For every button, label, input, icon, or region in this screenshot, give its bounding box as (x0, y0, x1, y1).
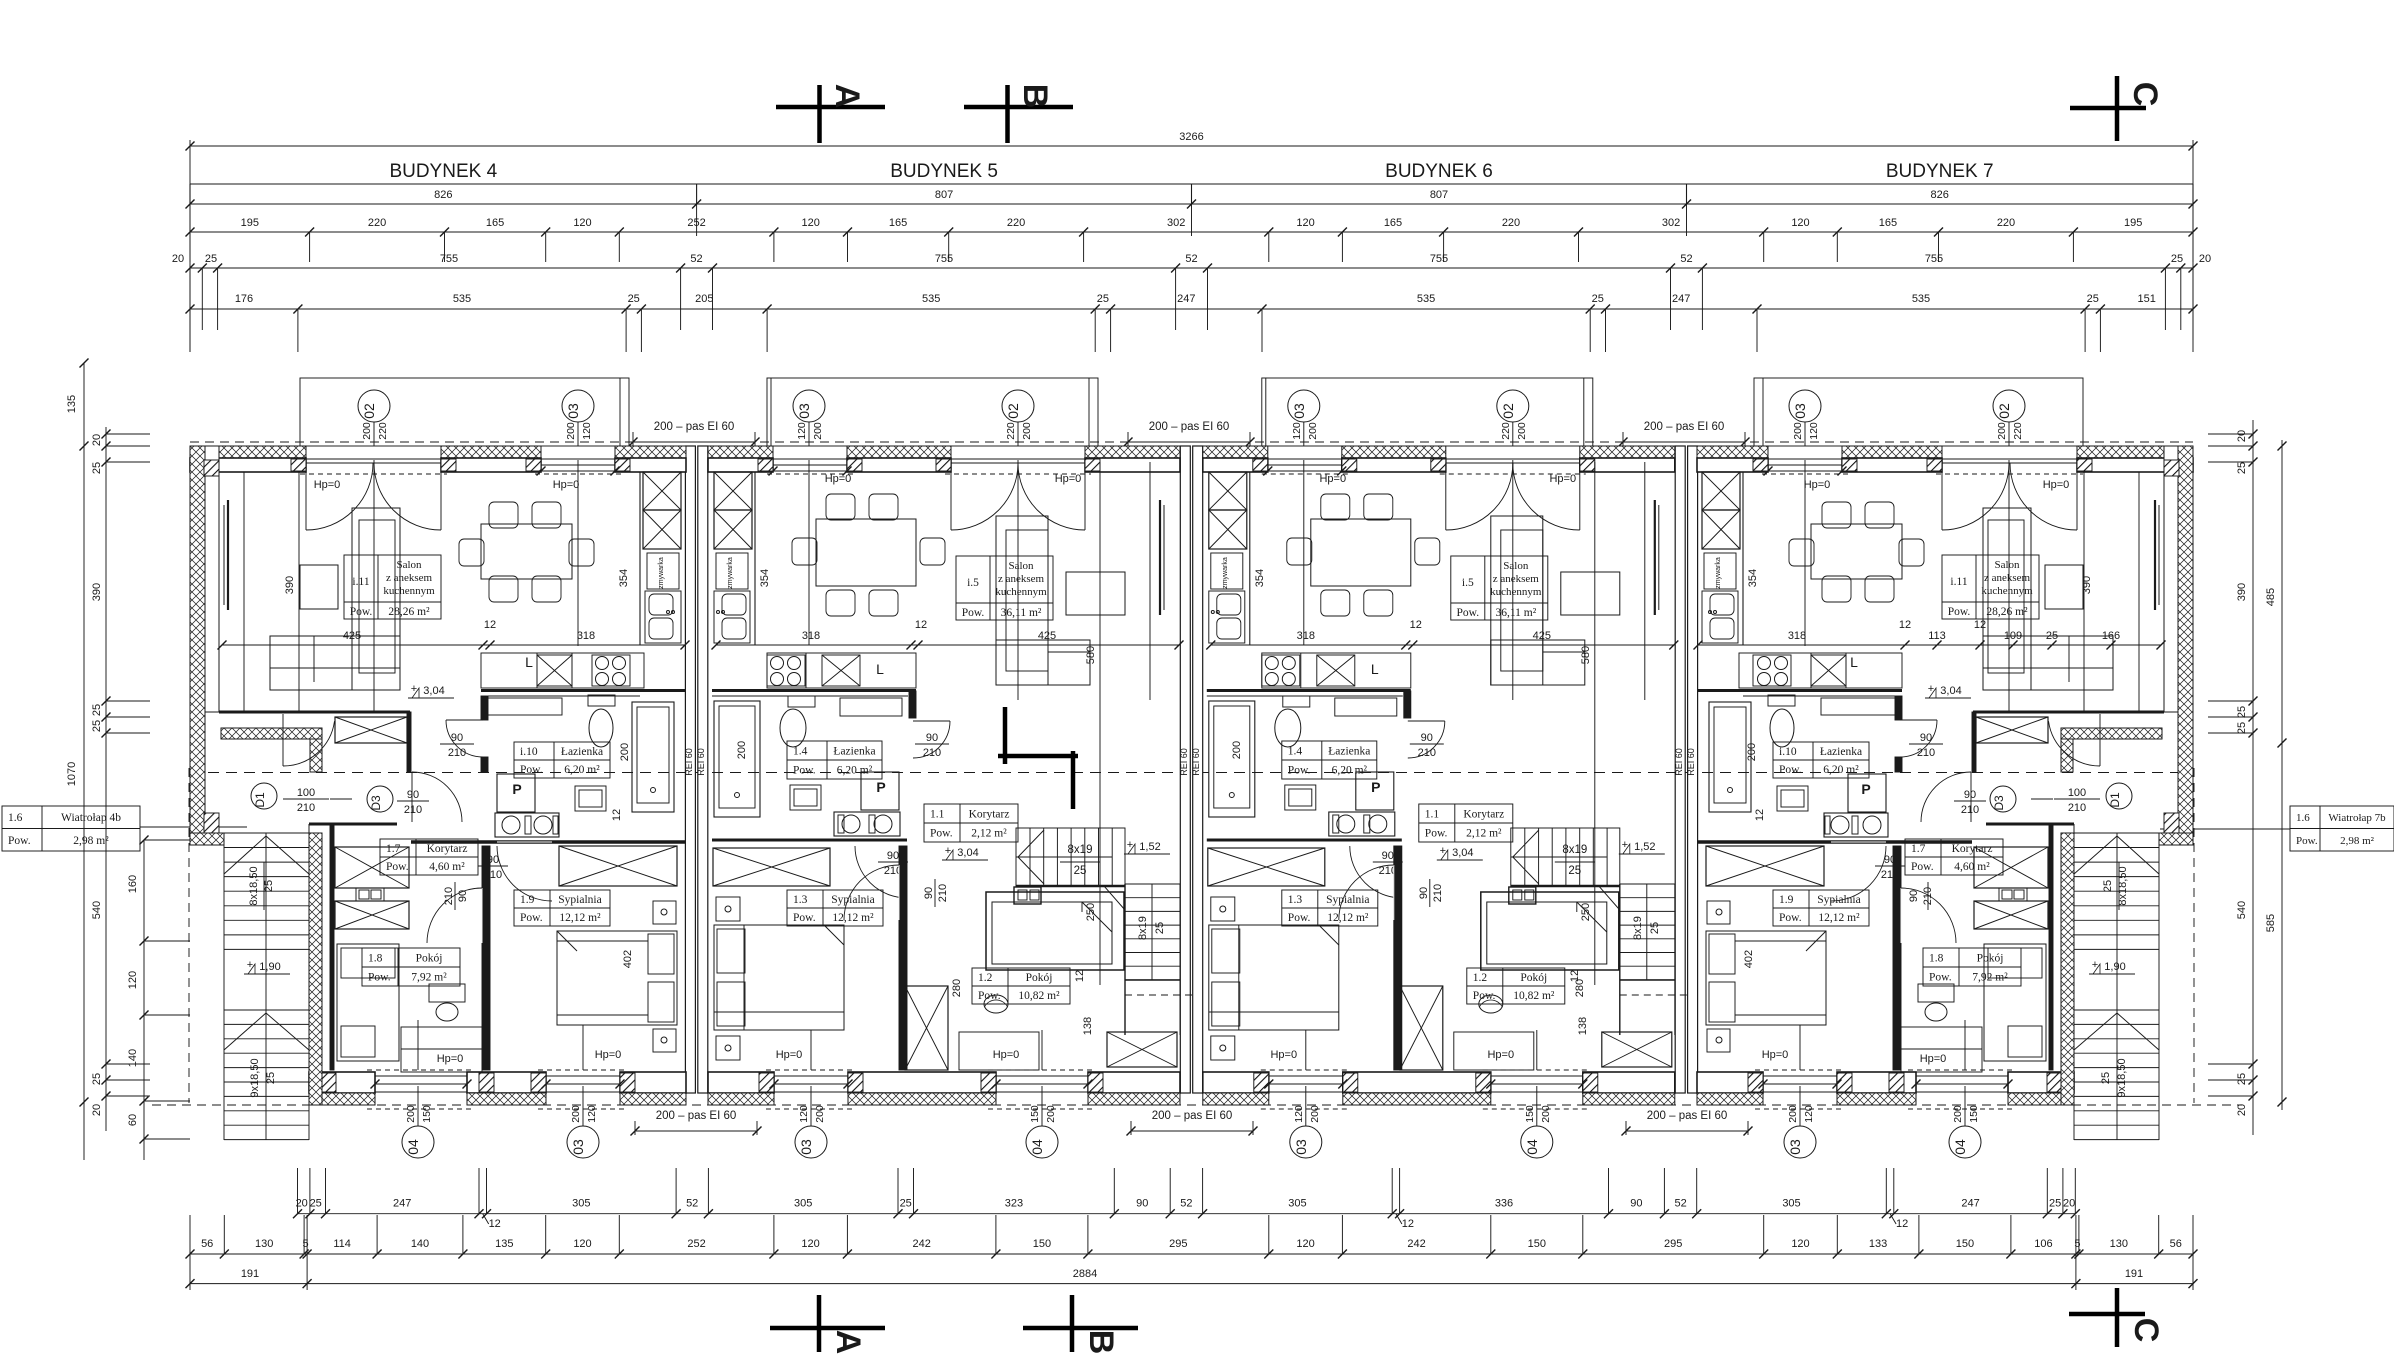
windows & doors in exterior walls (1942, 458, 2077, 460)
svg-text:1.6: 1.6 (8, 812, 23, 824)
svg-text:390: 390 (2081, 576, 2093, 594)
svg-text:REI 60: REI 60 (1674, 748, 1684, 776)
svg-text:1,52: 1,52 (1139, 841, 1160, 853)
svg-text:25: 25 (1154, 922, 1166, 934)
svg-text:25: 25 (2236, 462, 2248, 474)
svg-text:Hp=0: Hp=0 (1319, 473, 1346, 485)
left dimension column (66, 359, 190, 1161)
svg-text:25: 25 (628, 293, 640, 305)
svg-text:8x19: 8x19 (1632, 916, 1644, 940)
svg-text:03: 03 (796, 403, 812, 419)
svg-text:220: 220 (377, 422, 389, 440)
svg-text:90: 90 (457, 890, 469, 902)
svg-text:210: 210 (404, 804, 422, 816)
svg-text:140: 140 (411, 1238, 429, 1250)
corridor 1.7 (411, 840, 686, 844)
svg-text:305: 305 (1782, 1198, 1800, 1210)
svg-text:Pow.: Pow. (350, 606, 373, 618)
svg-text:220: 220 (1997, 217, 2015, 229)
svg-text:Hp=0: Hp=0 (1920, 1053, 1947, 1065)
svg-text:100: 100 (2068, 787, 2086, 799)
svg-text:D1: D1 (253, 792, 267, 808)
svg-text:Salon: Salon (396, 559, 422, 571)
exterior walls mid unit (708, 446, 773, 458)
sypialnia 1.9 (1773, 890, 1869, 926)
svg-text:200: 200 (361, 422, 373, 440)
svg-text:1,52: 1,52 (1634, 841, 1655, 853)
svg-text:318: 318 (1297, 630, 1315, 642)
svg-text:52: 52 (686, 1198, 698, 1210)
svg-text:20: 20 (2236, 430, 2248, 442)
svg-text:Pokój: Pokój (1026, 972, 1053, 984)
svg-text:280: 280 (951, 979, 963, 997)
svg-text:4,60 m²: 4,60 m² (1954, 861, 1990, 873)
svg-text:138: 138 (1082, 1017, 1094, 1035)
svg-text:205: 205 (695, 293, 713, 305)
svg-text:zmywarka: zmywarka (727, 557, 734, 589)
svg-text:130: 130 (2110, 1238, 2128, 1250)
svg-text:Hp=0: Hp=0 (314, 479, 341, 491)
svg-text:REI 60: REI 60 (1686, 748, 1696, 776)
svg-text:zmywarka: zmywarka (658, 557, 665, 589)
svg-text:302: 302 (1167, 217, 1185, 229)
svg-text:03: 03 (1291, 403, 1307, 419)
svg-text:z aneksem: z aneksem (1493, 573, 1540, 585)
svg-text:12: 12 (1074, 970, 1086, 982)
svg-text:25: 25 (2236, 706, 2248, 718)
svg-text:12: 12 (1402, 1218, 1414, 1230)
right dimension column (2208, 420, 2287, 1135)
svg-text:52: 52 (1674, 1198, 1686, 1210)
svg-text:D3: D3 (369, 795, 383, 811)
svg-text:52: 52 (690, 253, 702, 265)
windows & doors mid unit (773, 459, 847, 471)
svg-text:247: 247 (393, 1198, 411, 1210)
svg-text:3,04: 3,04 (1940, 685, 1961, 697)
svg-text:3266: 3266 (1179, 131, 1203, 143)
svg-text:585: 585 (2265, 914, 2277, 932)
section marker B top (1005, 85, 1010, 143)
svg-text:BUDYNEK 4: BUDYNEK 4 (389, 161, 497, 182)
svg-text:114: 114 (333, 1238, 351, 1250)
svg-text:Pow.: Pow. (1288, 912, 1311, 924)
svg-text:Sypialnia: Sypialnia (1326, 894, 1369, 906)
svg-text:200: 200 (1996, 422, 2008, 440)
svg-text:52: 52 (1180, 1198, 1192, 1210)
pokoj 1.8 (482, 846, 490, 1070)
svg-text:6,20 m²: 6,20 m² (837, 765, 873, 777)
svg-text:1070: 1070 (66, 762, 78, 786)
svg-text:90: 90 (923, 887, 935, 899)
svg-text:Pokój: Pokój (1977, 953, 2004, 965)
svg-text:318: 318 (1788, 630, 1806, 642)
svg-text:L: L (1371, 661, 1379, 677)
svg-text:zmywarka: zmywarka (1715, 557, 1722, 589)
svg-text:56: 56 (2170, 1238, 2182, 1250)
svg-text:6,20 m²: 6,20 m² (1332, 765, 1368, 777)
svg-text:133: 133 (1869, 1238, 1887, 1250)
svg-text:210: 210 (448, 747, 466, 759)
svg-text:826: 826 (434, 189, 452, 201)
svg-text:305: 305 (572, 1198, 590, 1210)
svg-text:540: 540 (91, 901, 103, 919)
svg-text:Wiatrołap 7b: Wiatrołap 7b (2328, 812, 2386, 824)
svg-text:Sypialnia: Sypialnia (558, 894, 601, 906)
svg-text:135: 135 (66, 395, 78, 413)
svg-text:318: 318 (802, 630, 820, 642)
svg-text:220: 220 (368, 217, 386, 229)
svg-text:03: 03 (1293, 1139, 1309, 1155)
svg-text:250: 250 (1085, 903, 1097, 921)
svg-text:166: 166 (2102, 630, 2120, 642)
svg-text:Pow.: Pow. (1911, 861, 1934, 873)
svg-text:6,20 m²: 6,20 m² (564, 764, 600, 776)
svg-text:Salon: Salon (1994, 559, 2020, 571)
corridor 1.1 mid (924, 804, 1018, 842)
kitchen end unit (639, 472, 641, 645)
svg-text:354: 354 (618, 569, 630, 587)
svg-text:Hp=0: Hp=0 (1762, 1049, 1789, 1061)
opening labels end unit (358, 390, 390, 422)
svg-text:160: 160 (127, 875, 139, 893)
svg-text:Pow.: Pow. (386, 861, 409, 873)
svg-text:L: L (525, 654, 533, 670)
wiatrolap 4b table (2, 806, 140, 851)
svg-text:12: 12 (1896, 1218, 1908, 1230)
svg-text:191: 191 (2125, 1268, 2143, 1280)
svg-text:90: 90 (1630, 1198, 1642, 1210)
svg-text:Korytarz: Korytarz (1463, 809, 1504, 821)
svg-text:BUDYNEK 5: BUDYNEK 5 (890, 161, 998, 182)
svg-text:Hp=0: Hp=0 (2043, 479, 2070, 491)
svg-text:L: L (1850, 654, 1858, 670)
corridor 1.1 mid (1419, 804, 1513, 842)
svg-text:z aneksem: z aneksem (1984, 572, 2031, 584)
hall / porch end unit (335, 717, 407, 743)
svg-text:106: 106 (2034, 1238, 2052, 1250)
svg-text:165: 165 (486, 217, 504, 229)
svg-text:305: 305 (794, 1198, 812, 1210)
svg-text:12: 12 (1754, 809, 1766, 821)
svg-text:8x19: 8x19 (1068, 844, 1093, 856)
svg-text:P: P (1371, 779, 1380, 795)
svg-text:1.4: 1.4 (793, 746, 808, 758)
svg-text:165: 165 (1384, 217, 1402, 229)
windows & doors mid unit (1268, 459, 1342, 471)
section marker B bottom (1070, 1295, 1075, 1352)
svg-text:90: 90 (887, 850, 899, 862)
svg-text:04: 04 (405, 1139, 421, 1155)
svg-text:03: 03 (565, 403, 581, 419)
svg-text:120: 120 (1791, 1238, 1809, 1250)
svg-text:200 – pas EI 60: 200 – pas EI 60 (1152, 1110, 1233, 1122)
svg-text:03: 03 (1792, 403, 1808, 419)
svg-text:210: 210 (1961, 804, 1979, 816)
svg-text:Hp=0: Hp=0 (1549, 473, 1576, 485)
svg-text:2884: 2884 (1073, 1268, 1097, 1280)
svg-text:25: 25 (2102, 880, 2114, 892)
svg-text:165: 165 (1879, 217, 1897, 229)
svg-text:z aneksem: z aneksem (998, 573, 1045, 585)
svg-text:25: 25 (2049, 1198, 2061, 1210)
svg-text:Hp=0: Hp=0 (1804, 479, 1831, 491)
svg-text:Pow.: Pow. (520, 912, 543, 924)
svg-text:755: 755 (1925, 253, 1943, 265)
svg-text:Pow.: Pow. (793, 765, 816, 777)
svg-text:Wiatrołap 4b: Wiatrołap 4b (61, 812, 121, 824)
svg-text:425: 425 (343, 630, 361, 642)
svg-text:Salon: Salon (1503, 560, 1529, 572)
svg-text:12: 12 (1410, 619, 1422, 631)
svg-text:C: C (2126, 82, 2164, 107)
svg-text:2,12 m²: 2,12 m² (971, 828, 1007, 840)
svg-text:25: 25 (91, 704, 103, 716)
svg-text:12,12 m²: 12,12 m² (1818, 912, 1860, 924)
stairs mid unit (1016, 828, 1125, 886)
svg-text:390: 390 (284, 576, 296, 594)
svg-text:200 – pas EI 60: 200 – pas EI 60 (656, 1110, 737, 1122)
svg-text:120: 120 (1296, 217, 1314, 229)
svg-text:20: 20 (2236, 1104, 2248, 1116)
svg-text:52: 52 (1185, 253, 1197, 265)
svg-text:Łazienka: Łazienka (561, 746, 603, 758)
svg-text:04: 04 (1524, 1139, 1540, 1155)
kitchen end unit (1742, 472, 1744, 645)
svg-text:120: 120 (1296, 1238, 1314, 1250)
svg-text:25: 25 (2087, 293, 2099, 305)
section B jog (1003, 707, 1008, 764)
svg-text:36,11 m²: 36,11 m² (1495, 607, 1536, 619)
svg-text:336: 336 (1495, 1198, 1513, 1210)
stairs tower end unit (309, 833, 322, 1105)
svg-text:120: 120 (1803, 1105, 1815, 1123)
svg-text:12: 12 (489, 1218, 501, 1230)
svg-text:Łazienka: Łazienka (833, 746, 875, 758)
svg-text:200 – pas EI 60: 200 – pas EI 60 (654, 421, 735, 433)
svg-text:1.3: 1.3 (1288, 894, 1303, 906)
svg-text:Hp=0: Hp=0 (437, 1053, 464, 1065)
svg-text:20: 20 (296, 1198, 308, 1210)
svg-text:BUDYNEK 7: BUDYNEK 7 (1886, 161, 1994, 182)
svg-text:1.8: 1.8 (368, 953, 383, 965)
svg-text:P: P (1861, 781, 1870, 797)
section marker A top (817, 85, 822, 143)
svg-text:12,12 m²: 12,12 m² (559, 912, 601, 924)
svg-text:1.1: 1.1 (1425, 809, 1440, 821)
svg-text:165: 165 (889, 217, 907, 229)
svg-text:REI 60: REI 60 (684, 748, 694, 776)
svg-text:25: 25 (1592, 293, 1604, 305)
svg-text:135: 135 (495, 1238, 513, 1250)
svg-text:100: 100 (297, 787, 315, 799)
svg-text:28,26 m²: 28,26 m² (1986, 606, 2028, 618)
svg-text:D3: D3 (1992, 795, 2006, 811)
svg-text:90: 90 (1920, 732, 1932, 744)
party wall B6/B7 (1675, 446, 1685, 1093)
svg-text:04: 04 (1952, 1139, 1968, 1155)
svg-text:1,90: 1,90 (2104, 961, 2125, 973)
dims mid unit (716, 644, 1180, 646)
svg-text:12: 12 (1974, 619, 1986, 631)
party wall B4/B5 (685, 446, 695, 1093)
svg-text:150: 150 (1968, 1105, 1980, 1123)
svg-text:Pow.: Pow. (2296, 835, 2318, 847)
svg-text:90: 90 (1421, 732, 1433, 744)
svg-text:130: 130 (255, 1238, 273, 1250)
salon mid unit (996, 516, 1048, 685)
svg-text:25: 25 (2236, 722, 2248, 734)
svg-text:113: 113 (1928, 630, 1946, 642)
svg-text:25: 25 (91, 462, 103, 474)
svg-text:1.9: 1.9 (1779, 894, 1794, 906)
svg-text:56: 56 (201, 1238, 213, 1250)
svg-text:Hp=0: Hp=0 (595, 1049, 622, 1061)
svg-text:12,12 m²: 12,12 m² (1327, 912, 1369, 924)
svg-text:191: 191 (241, 1268, 259, 1280)
svg-text:L: L (876, 661, 884, 677)
svg-text:242: 242 (913, 1238, 931, 1250)
stairs tower end unit (2061, 833, 2074, 1105)
svg-text:9x18,50: 9x18,50 (249, 1058, 261, 1097)
bottom dimension block (186, 1168, 2198, 1290)
svg-text:+: + (1928, 683, 1934, 695)
svg-text:Hp=0: Hp=0 (1487, 1049, 1514, 1061)
svg-text:151: 151 (2138, 293, 2156, 305)
svg-text:200 – pas EI 60: 200 – pas EI 60 (1149, 421, 1230, 433)
svg-text:390: 390 (91, 583, 103, 601)
svg-text:i.11: i.11 (1950, 576, 1967, 588)
svg-text:120: 120 (1291, 422, 1303, 440)
svg-text:Pow.: Pow. (793, 912, 816, 924)
svg-text:9x18,50: 9x18,50 (2116, 1058, 2128, 1097)
svg-text:1.6: 1.6 (2296, 812, 2310, 824)
svg-text:25: 25 (91, 1073, 103, 1085)
svg-text:i.10: i.10 (520, 746, 538, 758)
svg-text:755: 755 (440, 253, 458, 265)
svg-text:Pow.: Pow. (1948, 606, 1971, 618)
svg-text:200: 200 (1307, 422, 1319, 440)
exterior walls mid unit (1203, 446, 1268, 458)
svg-text:P: P (876, 779, 885, 795)
svg-text:12: 12 (611, 809, 623, 821)
svg-text:03: 03 (798, 1139, 814, 1155)
svg-text:535: 535 (453, 293, 471, 305)
svg-text:200: 200 (1952, 1105, 1964, 1123)
svg-text:1.8: 1.8 (1929, 953, 1944, 965)
exterior walls end unit (190, 446, 306, 458)
svg-text:210: 210 (923, 747, 941, 759)
opening labels mid unit (793, 390, 825, 422)
svg-text:36,11 m²: 36,11 m² (1001, 607, 1042, 619)
svg-text:Pow.: Pow. (1779, 764, 1802, 776)
svg-text:1.2: 1.2 (978, 972, 993, 984)
svg-text:25: 25 (1649, 922, 1661, 934)
svg-text:Hp=0: Hp=0 (553, 479, 580, 491)
svg-text:1,90: 1,90 (259, 961, 280, 973)
svg-text:kuchennym: kuchennym (995, 586, 1047, 598)
svg-text:140: 140 (127, 1049, 139, 1067)
svg-text:52: 52 (1680, 253, 1692, 265)
svg-text:150: 150 (1029, 1105, 1041, 1123)
svg-text:176: 176 (235, 293, 253, 305)
svg-text:150: 150 (1956, 1238, 1974, 1250)
svg-text:200: 200 (1787, 1105, 1799, 1123)
svg-text:90: 90 (451, 732, 463, 744)
svg-text:5: 5 (2074, 1238, 2080, 1250)
svg-text:Hp=0: Hp=0 (776, 1049, 803, 1061)
pokoj 1.8 (1893, 846, 1901, 1070)
svg-text:03: 03 (570, 1139, 586, 1155)
svg-text:354: 354 (1254, 569, 1266, 587)
svg-text:Pow.: Pow. (1457, 607, 1480, 619)
svg-text:Salon: Salon (1008, 560, 1034, 572)
svg-text:280: 280 (1574, 979, 1586, 997)
party wall B5/B6 (1180, 446, 1190, 1093)
svg-text:Pow.: Pow. (1929, 972, 1952, 984)
svg-text:150: 150 (1528, 1238, 1546, 1250)
svg-text:150: 150 (1033, 1238, 1051, 1250)
svg-text:200: 200 (565, 422, 577, 440)
svg-text:7,92 m²: 7,92 m² (1972, 972, 2008, 984)
svg-text:2,98 m²: 2,98 m² (73, 835, 109, 847)
svg-text:1.7: 1.7 (1911, 843, 1926, 855)
svg-text:kuchennym: kuchennym (1490, 586, 1542, 598)
svg-text:580: 580 (1085, 646, 1097, 664)
svg-text:20: 20 (91, 1104, 103, 1116)
windows & doors in exterior walls (306, 458, 441, 460)
svg-text:354: 354 (759, 569, 771, 587)
svg-text:1.2: 1.2 (1473, 972, 1488, 984)
bathroom mid unit (1207, 695, 1403, 697)
svg-text:25: 25 (1097, 293, 1109, 305)
svg-text:402: 402 (622, 950, 634, 968)
svg-text:200: 200 (1045, 1105, 1057, 1123)
svg-text:Pow.: Pow. (1288, 765, 1311, 777)
salon interior (219, 711, 410, 714)
svg-text:28,26 m²: 28,26 m² (388, 606, 430, 618)
svg-text:120: 120 (1808, 422, 1820, 440)
svg-text:120: 120 (127, 971, 139, 989)
svg-text:+: + (1440, 845, 1446, 857)
svg-text:305: 305 (1288, 1198, 1306, 1210)
svg-text:200: 200 (1516, 422, 1528, 440)
svg-text:120: 120 (573, 217, 591, 229)
svg-text:210: 210 (297, 802, 315, 814)
svg-text:20: 20 (91, 434, 103, 446)
svg-text:402: 402 (1743, 950, 1755, 968)
salon interior (1973, 711, 2164, 714)
svg-text:200: 200 (619, 743, 631, 761)
svg-text:90: 90 (1418, 887, 1430, 899)
svg-text:195: 195 (241, 217, 259, 229)
svg-text:318: 318 (577, 630, 595, 642)
svg-text:12: 12 (1899, 619, 1911, 631)
kitchen mid unit (754, 472, 756, 645)
svg-text:A: A (828, 84, 866, 109)
svg-text:Pow.: Pow. (930, 828, 953, 840)
svg-text:10,82 m²: 10,82 m² (1513, 990, 1555, 1002)
svg-text:195: 195 (2124, 217, 2142, 229)
svg-text:120: 120 (573, 1238, 591, 1250)
svg-text:200: 200 (1746, 743, 1758, 761)
svg-text:02: 02 (1500, 403, 1516, 419)
svg-text:3,04: 3,04 (423, 685, 444, 697)
svg-text:120: 120 (1791, 217, 1809, 229)
svg-text:i.5: i.5 (1462, 577, 1474, 589)
svg-text:REI 60: REI 60 (1191, 748, 1201, 776)
svg-text:1.9: 1.9 (520, 894, 535, 906)
svg-text:Pow.: Pow. (1425, 828, 1448, 840)
